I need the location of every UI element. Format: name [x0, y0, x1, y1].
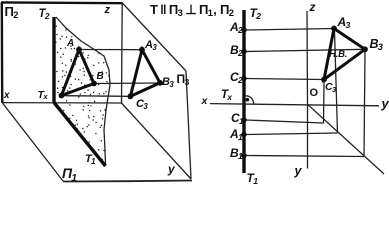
axis z (right)	[306, 11, 309, 104]
point C	[59, 93, 65, 99]
label z (right)	[310, 1, 316, 13]
point B3 (right)	[362, 46, 368, 52]
point C2	[241, 76, 246, 81]
label y (bottom)	[295, 165, 302, 178]
label T1 (left)	[85, 154, 96, 165]
label C3 (right)	[325, 82, 336, 93]
axis z (left drawing)	[121, 3, 124, 103]
projection line B-B3	[95, 82, 158, 85]
label O	[310, 88, 318, 99]
point A	[76, 47, 82, 53]
projection line C-C3	[63, 95, 129, 98]
point B2	[241, 49, 246, 54]
point B	[91, 81, 97, 87]
point B3 (left)	[157, 80, 163, 86]
label T2 (right)	[250, 7, 262, 19]
label Tx (left)	[38, 90, 48, 101]
label C1	[231, 112, 244, 124]
point B1	[241, 153, 246, 158]
point A3 (left)	[139, 47, 145, 53]
axis y downward (right)	[307, 104, 309, 168]
label NV	[329, 50, 347, 60]
dot inside arc	[246, 98, 250, 102]
plane P2 left border	[1, 2, 4, 102]
label B3 (right)	[370, 38, 384, 51]
label P2	[5, 5, 19, 18]
torn edge of plane T	[56, 17, 110, 164]
plane P3 right edge	[186, 71, 191, 179]
point A1	[241, 132, 246, 137]
triangle A3 B3 C3 (right, natural size)	[324, 29, 365, 80]
label A3 (left)	[145, 40, 157, 51]
point C3 (left)	[127, 93, 133, 99]
stipple of plane T	[55, 26, 109, 161]
trace T1 (left)	[54, 103, 106, 167]
plane P1 bottom edge	[63, 181, 192, 182]
label y (left)	[168, 163, 174, 175]
line C2-C3	[246, 79, 324, 80]
label B	[97, 72, 104, 82]
point A2	[241, 27, 246, 32]
plane P1 left edge	[2, 103, 63, 181]
label z (left)	[105, 5, 110, 16]
transfer line from C3	[323, 82, 326, 124]
line A2-A3	[246, 29, 334, 31]
label A1	[230, 128, 243, 140]
label P3 (left)	[177, 73, 190, 85]
plane P2 top border	[1, 1, 123, 4]
label T1 (right)	[247, 172, 259, 184]
label B1	[230, 147, 243, 159]
line B2-B3	[246, 49, 365, 51]
label A	[67, 39, 74, 49]
label Tx (right)	[221, 90, 232, 102]
label x (left)	[4, 91, 9, 101]
label P1	[62, 166, 77, 181]
trace line T2/T1 (right)	[242, 10, 245, 173]
transfer line from B3	[364, 52, 365, 157]
label C3 (left)	[136, 99, 148, 110]
bisector k-line	[308, 104, 385, 174]
point C1	[241, 117, 246, 122]
label y (right end)	[382, 97, 389, 110]
line C1 transfer	[246, 120, 324, 123]
label x (right)	[202, 96, 208, 107]
projection line A-A3	[80, 49, 140, 51]
triangle A3 B3 C3 (left)	[130, 50, 160, 97]
axis x (left drawing)	[2, 102, 121, 104]
label B2	[230, 44, 243, 56]
transfer line from A3	[335, 31, 338, 133]
axis x-y horizontal (right)	[210, 104, 379, 106]
point A3 (right)	[331, 26, 337, 32]
plane P3 top edge	[123, 3, 187, 71]
line B1 transfer	[246, 156, 364, 157]
trace T2 (left)	[52, 17, 55, 103]
label T2 (left)	[39, 9, 50, 21]
label A2	[230, 21, 243, 33]
point C3 (right)	[321, 77, 327, 83]
axis y (left drawing)	[122, 103, 192, 179]
label C2	[230, 71, 243, 83]
line A1 transfer	[246, 133, 338, 135]
right-angle arc at Tx	[246, 96, 254, 104]
label title	[150, 3, 234, 16]
triangle ABC	[62, 50, 95, 96]
label A3 (right)	[338, 16, 351, 28]
label B3 (left)	[162, 77, 174, 88]
